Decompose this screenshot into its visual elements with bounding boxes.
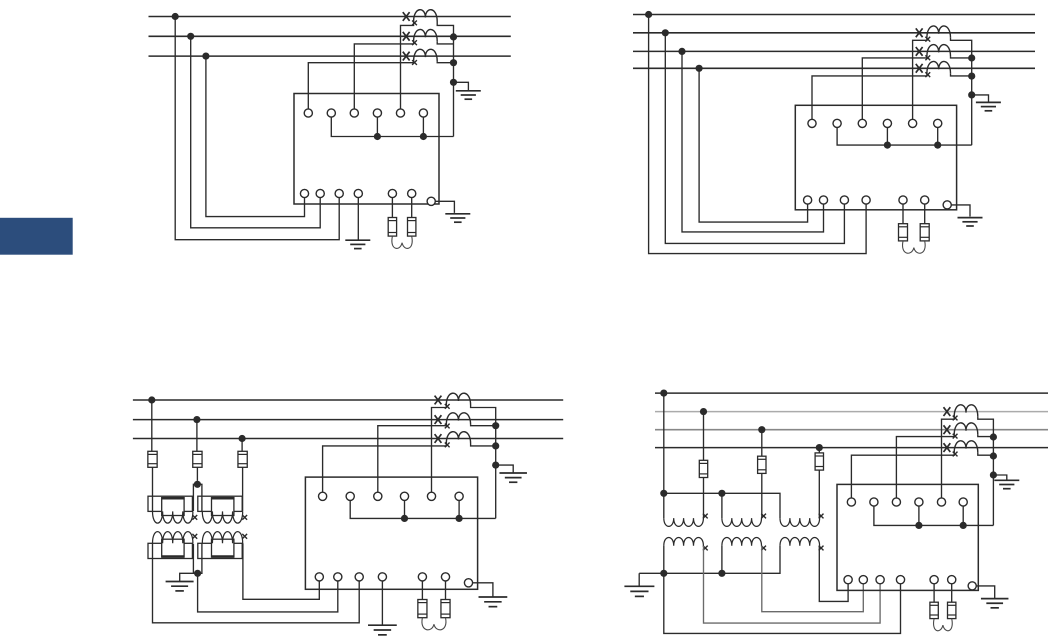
CT3 secondary polarity x (TR) — [925, 72, 930, 77]
wire PT2 secondary to b1 (BL) — [243, 543, 319, 599]
TR feeder wire 2 to b3 — [665, 33, 844, 244]
wire CT1 secondary to t5 (BR) — [942, 417, 955, 498]
junction t6 common (TR) — [934, 142, 941, 149]
terminal t2 (BL) — [346, 492, 354, 500]
wire CT2 secondary to terminal t3 (TL) — [354, 41, 413, 109]
wire t2 to common (BR) — [874, 506, 994, 525]
PT1 primary polarity x (BL) — [192, 515, 197, 520]
wire b6 to fuse (BR) — [951, 584, 953, 602]
wire secondary common to b2 (BL) — [198, 573, 338, 612]
terminal t4 (BR) — [915, 498, 923, 506]
junction ground tap (BL) — [492, 462, 499, 469]
terminal b3 (TL) — [335, 189, 343, 197]
terminal t2 (TL) — [327, 109, 335, 117]
TL feeder wire phase B to terminal b2 — [191, 36, 321, 228]
PT1 primary winding (BR) — [664, 518, 704, 526]
wire corner terminal to ground (BR) — [976, 586, 994, 598]
PT3 secondary polarity x (BR) — [819, 546, 824, 551]
PT fuse 3 (BL) — [238, 451, 247, 467]
terminal t6 (BR) — [959, 498, 967, 506]
terminal b5 (BL) — [418, 573, 426, 581]
terminal b2 (TR) — [819, 196, 827, 204]
terminal t3 (TR) — [858, 119, 866, 127]
terminal b6 (BL) — [441, 573, 449, 581]
terminal t1 (BR) — [847, 498, 855, 506]
CT2 winding (TR) — [927, 45, 951, 57]
terminal bG corner (TR) — [943, 201, 951, 209]
fuse F1 (BR) — [930, 602, 938, 618]
ground symbol b4 (TL) — [345, 239, 370, 241]
fuse F1 (BL) — [418, 600, 427, 618]
BR bus line 3 — [655, 429, 1048, 431]
junction ground tap (BR) — [990, 471, 997, 478]
TL phase bus A — [149, 16, 511, 18]
PT fuse 1 (BR) — [699, 460, 707, 477]
wire CT2 secondary to t3 (TR) — [862, 56, 927, 119]
fuse F2 (TR) — [920, 224, 929, 241]
terminal b1 (TR) — [804, 196, 812, 204]
wire b6 to fuse (TL) — [411, 198, 413, 218]
TR bus tap junction 3 — [678, 48, 685, 55]
wire t6 stub (TL) — [422, 117, 424, 136]
wire b5 to fuse (BR) — [933, 584, 935, 602]
meter box (TR) — [795, 105, 956, 210]
shorting loop (TR) — [903, 241, 926, 253]
wire CT3 secondary return (TR) — [951, 73, 972, 76]
wire fuse3 to PT2 right (BL) — [242, 467, 244, 511]
wire CT1 secondary return (TL) — [437, 22, 453, 137]
junction primary common 1 (BR) — [660, 490, 667, 497]
junction PT secondary common (BL) — [194, 570, 201, 577]
junction PT primary common (BL) — [194, 481, 201, 488]
CT3 polarity mark X (TR) — [916, 64, 923, 73]
BL phase bus 2 — [133, 419, 563, 421]
PT fuse 3 (BR) — [815, 453, 823, 470]
CT2 secondary polarity x (BR) — [953, 434, 958, 439]
PT2 primary polarity x (BR) — [761, 514, 766, 519]
CT2 winding (BL) — [446, 413, 470, 425]
wire bus2 to fuse (BL) — [196, 420, 198, 452]
junction t4 common (TR) — [884, 142, 891, 149]
terminal t1 (TR) — [808, 119, 816, 127]
terminal b4 (TR) — [862, 196, 870, 204]
wire b6 to fuse (TR) — [924, 204, 926, 224]
PT fuse 1 (BL) — [148, 451, 157, 467]
PT2 secondary winding (BR) — [722, 537, 762, 545]
wire bus3 to fuse (BR) — [761, 430, 763, 457]
meter box (BR) — [837, 484, 978, 590]
wire CT1 secondary to t5 (TR) — [913, 38, 927, 120]
CT3 secondary polarity x (BL) — [445, 443, 450, 448]
PT3 primary polarity x (BR) — [819, 514, 824, 519]
ground symbol corner (TR) — [958, 217, 983, 219]
PT secondary common bus (BR) — [639, 546, 780, 574]
PT fuse 2 (BL) — [193, 451, 202, 467]
terminal t3 (TL) — [350, 109, 358, 117]
PT1 primary polarity x (BR) — [703, 514, 708, 519]
wire t4 stub (TR) — [886, 128, 888, 146]
wire t2 to common (TR) — [837, 128, 972, 146]
junction ground tap (TR) — [968, 91, 975, 98]
junction t6 common (BL) — [456, 515, 463, 522]
terminal bG corner (TL) — [427, 197, 435, 205]
neutral wire drop (BR) — [663, 393, 665, 518]
wire CT3 secondary to t1 (BR) — [851, 453, 954, 498]
CT1 secondary polarity x (BL) — [445, 404, 450, 409]
junction t4 common (BL) — [401, 515, 408, 522]
terminal t6 (TL) — [419, 109, 427, 117]
ground symbol corner (BR) — [981, 598, 1009, 600]
wire common branch to PT1 right (BL) — [193, 484, 202, 511]
PT1 secondary winding (BL) — [148, 543, 192, 558]
terminal t4 (TR) — [883, 119, 891, 127]
ground symbol (BR top) — [994, 479, 1019, 481]
terminal b4 (BL) — [378, 573, 386, 581]
BL bus tap junction — [148, 396, 155, 403]
wire CT1 secondary return (BR) — [978, 417, 994, 526]
terminal b4 (BR) — [896, 576, 904, 584]
wire CT2 secondary return (BR) — [978, 435, 994, 437]
TL phase bus C — [149, 55, 511, 57]
wire t2 to common (BL) — [350, 500, 496, 518]
fuse F1 (TL) — [388, 218, 396, 237]
wire fuse1 to PT1 (BR) — [703, 478, 705, 519]
CT2 polarity mark X (TR) — [916, 47, 923, 56]
CT1 polarity mark X (BR) — [944, 407, 951, 416]
TR feeder wire 1 to b4 — [649, 15, 867, 254]
CT2 winding (TL) — [414, 29, 438, 41]
CT1 secondary polarity x (TR) — [925, 37, 930, 42]
TR feeder wire 4 to b1 — [699, 68, 808, 222]
CT3 winding (BR) — [954, 441, 978, 453]
terminal b3 (BR) — [876, 576, 884, 584]
wire bus1 to fuse (BL) — [151, 400, 153, 451]
wire CT2 secondary to t3 (BL) — [378, 425, 447, 493]
CT3 winding (TL) — [414, 49, 438, 61]
PT1 secondary polarity x (BR) — [703, 546, 708, 551]
CT1 polarity mark X (TL) — [403, 12, 410, 21]
terminal t3 (BL) — [374, 492, 382, 500]
fuse F2 (BL) — [441, 600, 450, 618]
terminal t5 (BR) — [937, 498, 945, 506]
terminal t1 (BL) — [319, 492, 327, 500]
BL bus tap junction — [193, 416, 200, 423]
CT1 polarity mark X (TR) — [916, 28, 923, 37]
TR bus tap junction 2 — [662, 29, 669, 36]
PT1 secondary winding (BR) — [664, 537, 704, 545]
CT2 secondary polarity x (TR) — [925, 55, 930, 60]
junction secondary common 1 (BR) — [660, 570, 667, 577]
TL feeder wire phase A to terminal b3 — [175, 17, 339, 240]
terminal b1 (BL) — [315, 573, 323, 581]
TL phase bus B — [149, 35, 511, 37]
PT primary common bus (BR) — [664, 493, 780, 518]
terminal t6 (TR) — [934, 119, 942, 127]
terminal t3 (BR) — [892, 498, 900, 506]
terminal b3 (BL) — [355, 573, 363, 581]
junction t4 common (TL) — [374, 133, 381, 140]
terminal b6 (BR) — [948, 576, 956, 584]
wire to ground (BR top) — [993, 475, 1006, 480]
junction CT3 return (TL) — [450, 59, 457, 66]
wire CT3 secondary return (BR) — [978, 453, 994, 456]
wire t4 stub (BL) — [404, 500, 406, 518]
wire PT2 secondary left (BR) — [721, 546, 723, 574]
junction t6 common (TL) — [420, 133, 427, 140]
wire t4 stub (TL) — [376, 117, 378, 136]
TL bus tap junction 2 — [187, 33, 194, 40]
wire secondary common to ground (BL) — [180, 573, 198, 581]
terminal b5 (TR) — [899, 196, 907, 204]
ground symbol PT common (BL) — [166, 581, 194, 583]
wire b6 to fuse (BL) — [445, 581, 447, 600]
meter box (BL) — [305, 477, 477, 589]
terminal t2 (TR) — [833, 119, 841, 127]
terminal b2 (BL) — [334, 573, 342, 581]
shorting loop (TL) — [392, 236, 412, 248]
wire to ground (TL top) — [454, 82, 469, 90]
wire CT2 secondary to t3 (BR) — [896, 435, 954, 498]
BR bus tap junction — [700, 408, 707, 415]
wire PT2 secondary to b2 (BR) — [762, 546, 864, 612]
wire fuse2 to PT1/PT2 common (BL) — [196, 467, 198, 481]
terminal bG corner (BR) — [968, 582, 976, 590]
BR bus line 4 — [655, 447, 1048, 449]
BR bus line 2 — [655, 411, 1048, 413]
CT3 winding (TR) — [927, 61, 951, 73]
shorting loop (BL) — [422, 618, 446, 630]
wire CT3 secondary to t1 (TR) — [812, 73, 927, 119]
wire CT1 secondary return (TR) — [951, 38, 972, 145]
junction CT2 return (TR) — [968, 54, 975, 61]
junction CT3 return (TR) — [968, 73, 975, 80]
CT3 polarity mark X (TL) — [403, 52, 410, 61]
ground symbol PT common (BR) — [624, 585, 654, 587]
junction CT3 return (BR) — [990, 452, 997, 459]
wire bus2 to fuse (BR) — [703, 412, 705, 461]
CT3 secondary polarity x (TL) — [412, 60, 417, 65]
terminal b5 (BR) — [930, 576, 938, 584]
wire corner terminal to ground (BL) — [473, 583, 493, 597]
wire PT1 secondary to b3 (BR) — [704, 546, 881, 623]
CT2 winding (BR) — [954, 423, 978, 435]
terminal t5 (TR) — [909, 119, 917, 127]
fuse F2 (TL) — [408, 218, 416, 237]
wire fuse2 to PT2 (BR) — [761, 473, 763, 518]
PT2 primary winding (BL) — [198, 496, 242, 511]
wire b5 to fuse (TL) — [391, 198, 393, 218]
wire CT3 secondary return (TL) — [437, 61, 453, 63]
wire CT2 secondary return (TL) — [437, 41, 453, 44]
wire PT1 secondary left (BR) — [663, 546, 665, 574]
terminal b1 (TL) — [300, 189, 308, 197]
wire fuse1 to PT1 primary (BL) — [152, 467, 154, 511]
wire PT1 secondary to b3 (BL) — [153, 543, 360, 623]
PT3 secondary winding (BR) — [780, 537, 820, 545]
wire CT1 secondary return (BL) — [471, 405, 496, 518]
TR bus tap junction 1 — [645, 11, 652, 18]
wire common bus to ground (BR) — [638, 573, 640, 586]
wire corner terminal to ground (TL) — [435, 201, 454, 213]
BR bus tap junction — [816, 444, 823, 451]
terminal b2 (TL) — [316, 189, 324, 197]
junction CT2 return (BL) — [492, 422, 499, 429]
BL bus tap junction — [239, 435, 246, 442]
terminal t5 (TL) — [396, 109, 404, 117]
ground symbol (TL top) — [456, 90, 481, 92]
TR bus line 1 — [633, 14, 1035, 16]
junction CT3 return (BL) — [492, 442, 499, 449]
wire t6 stub (BR) — [962, 506, 964, 525]
BR bus tap junction — [660, 390, 667, 397]
wire secondary common branch (BL) — [193, 544, 202, 574]
PT2 primary polarity x (BL) — [242, 515, 247, 520]
CT2 secondary polarity x (BL) — [445, 424, 450, 429]
PT2 secondary winding (BL) — [198, 543, 242, 558]
PT2 secondary polarity x (BL) — [242, 534, 247, 539]
BL phase bus 3 — [133, 438, 563, 440]
CT2 secondary polarity x (TL) — [412, 40, 417, 45]
CT1 secondary polarity x (BR) — [953, 416, 958, 421]
wire PT3 secondary to b1 (BR) — [819, 546, 848, 602]
terminal b1 (BR) — [844, 576, 852, 584]
CT1 winding (TL) — [414, 10, 438, 22]
TL bus tap junction 1 — [172, 13, 179, 20]
PT fuse 2 (BR) — [758, 456, 766, 473]
ground symbol corner (TL) — [445, 213, 470, 215]
CT2 polarity mark X (BR) — [944, 425, 951, 434]
wire to ground (TR top) — [972, 95, 989, 102]
junction primary common 2 (BR) — [718, 490, 725, 497]
terminal b5 (TL) — [388, 189, 396, 197]
terminal b2 (BR) — [859, 576, 867, 584]
wire b4 to ground (BL) — [381, 581, 383, 625]
wire CT1 secondary to terminal t5 (TL) — [401, 22, 414, 109]
wire CT1 secondary to t5 (BL) — [432, 405, 447, 492]
CT3 polarity mark X (BR) — [944, 443, 951, 452]
fuse F2 (BR) — [948, 602, 956, 618]
wire CT3 secondary return (BL) — [471, 444, 496, 446]
wire b5 to fuse (TR) — [902, 204, 904, 224]
PT1 secondary polarity x (BL) — [192, 534, 197, 539]
shorting loop (BR) — [934, 619, 953, 631]
CT1 winding (BL) — [446, 393, 470, 405]
TR feeder wire 3 to b2 — [682, 51, 824, 232]
wire b5 to fuse (BL) — [421, 581, 423, 600]
junction CT2 return (BR) — [990, 433, 997, 440]
CT3 polarity mark X (BL) — [435, 434, 442, 443]
wire b4 to ground (TL) — [357, 198, 359, 240]
TR bus tap junction 4 — [696, 65, 703, 72]
terminal t6 (BL) — [455, 492, 463, 500]
PT2 primary winding (BR) — [722, 518, 762, 526]
terminal b3 (TR) — [840, 196, 848, 204]
wire CT3 secondary to terminal t1 (TL) — [308, 61, 413, 109]
junction secondary common 2 (BR) — [718, 570, 725, 577]
terminal t4 (TL) — [373, 109, 381, 117]
CT3 winding (BL) — [446, 432, 470, 444]
ground symbol corner (BL) — [479, 596, 508, 598]
terminal b6 (TL) — [408, 189, 416, 197]
junction CT common on bus B (TL) — [450, 33, 457, 40]
terminal t1 (TL) — [304, 109, 312, 117]
ground symbol (BL top) — [499, 472, 527, 474]
terminal b4 (TL) — [354, 189, 362, 197]
PT1 primary winding (BL) — [148, 496, 192, 511]
CT3 secondary polarity x (BR) — [953, 452, 958, 457]
wire bus3 to fuse (BL) — [241, 439, 243, 452]
PT3 primary winding (BR) — [780, 518, 820, 526]
CT2 polarity mark X (TL) — [403, 32, 410, 41]
TL bus tap junction 3 — [202, 53, 209, 60]
CT1 polarity mark X (BL) — [435, 396, 442, 405]
wire neutral to b4 (BR) — [664, 573, 901, 633]
junction ground tap (TL) — [450, 79, 457, 86]
terminal b6 (TR) — [921, 196, 929, 204]
CT2 polarity mark X (BL) — [435, 415, 442, 424]
blue sidebar tab — [0, 218, 73, 255]
terminal t2 (BR) — [870, 498, 878, 506]
wire t4 stub (BR) — [918, 506, 920, 525]
CT1 winding (BR) — [954, 405, 978, 417]
meter box (TL) — [294, 94, 439, 205]
terminal t4 (BL) — [400, 492, 408, 500]
wire t6 stub (BL) — [458, 500, 460, 518]
CT1 winding (TR) — [927, 26, 951, 38]
terminal bG corner (BL) — [464, 579, 472, 587]
ground symbol b4 (BL) — [368, 624, 397, 626]
wire t2 to common (TL) — [331, 117, 453, 136]
junction t4 common (BR) — [915, 522, 922, 529]
wire bus4 to fuse (BR) — [818, 448, 820, 453]
wire CT3 secondary to t1 (BL) — [323, 444, 447, 493]
wire CT2 secondary return (TR) — [951, 56, 972, 58]
BL phase bus 1 — [133, 399, 563, 401]
wire fuse3 to PT3 (BR) — [818, 470, 820, 518]
TR bus line 2 — [633, 32, 1035, 34]
BR bus tap junction — [758, 426, 765, 433]
junction t6 common (BR) — [960, 522, 967, 529]
wire to ground (BL top) — [496, 465, 514, 473]
wire corner terminal to ground (TR) — [951, 205, 970, 217]
terminal t5 (BL) — [427, 492, 435, 500]
BR bus line 1 — [655, 392, 1048, 394]
wire common to PT2 primary (BR) — [721, 493, 723, 518]
TL feeder wire phase C to terminal b1 — [206, 56, 305, 217]
TR bus line 3 — [633, 50, 1035, 52]
wire t6 stub (TR) — [937, 128, 939, 146]
wire CT2 secondary return (BL) — [471, 425, 496, 426]
TR bus line 4 — [633, 67, 1035, 69]
fuse F1 (TR) — [899, 224, 908, 241]
ground symbol (TR top) — [976, 101, 1001, 103]
PT2 secondary polarity x (BR) — [761, 546, 766, 551]
CT1 secondary polarity x (TL) — [412, 21, 417, 26]
